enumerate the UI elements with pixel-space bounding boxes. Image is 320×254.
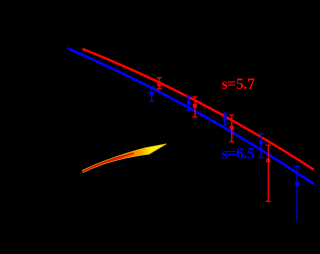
- blue data point B1 with error bar: [149, 87, 154, 101]
- arrow (comet shaped, dark red body to yellow head): [83, 144, 167, 173]
- red fit line s=5.7: [83, 49, 315, 170]
- svg-text:s=5.7: s=5.7: [222, 76, 255, 93]
- blue data point B2 with error bar: [186, 96, 191, 110]
- blue fit line s=6.5: [68, 48, 315, 184]
- red data point R3 with error bar: [229, 115, 234, 142]
- blue data point B3 with error bar: [222, 113, 227, 125]
- blue data point B5 with error bar fading below: [295, 167, 300, 224]
- svg-text:s=6.5: s=6.5: [222, 146, 255, 163]
- red data point R1 with error bar: [157, 78, 162, 89]
- blue data point B4 with error bar: [259, 134, 264, 158]
- red data point R4 with error bar: [266, 145, 271, 201]
- red data point R2 with error bar: [192, 97, 197, 117]
